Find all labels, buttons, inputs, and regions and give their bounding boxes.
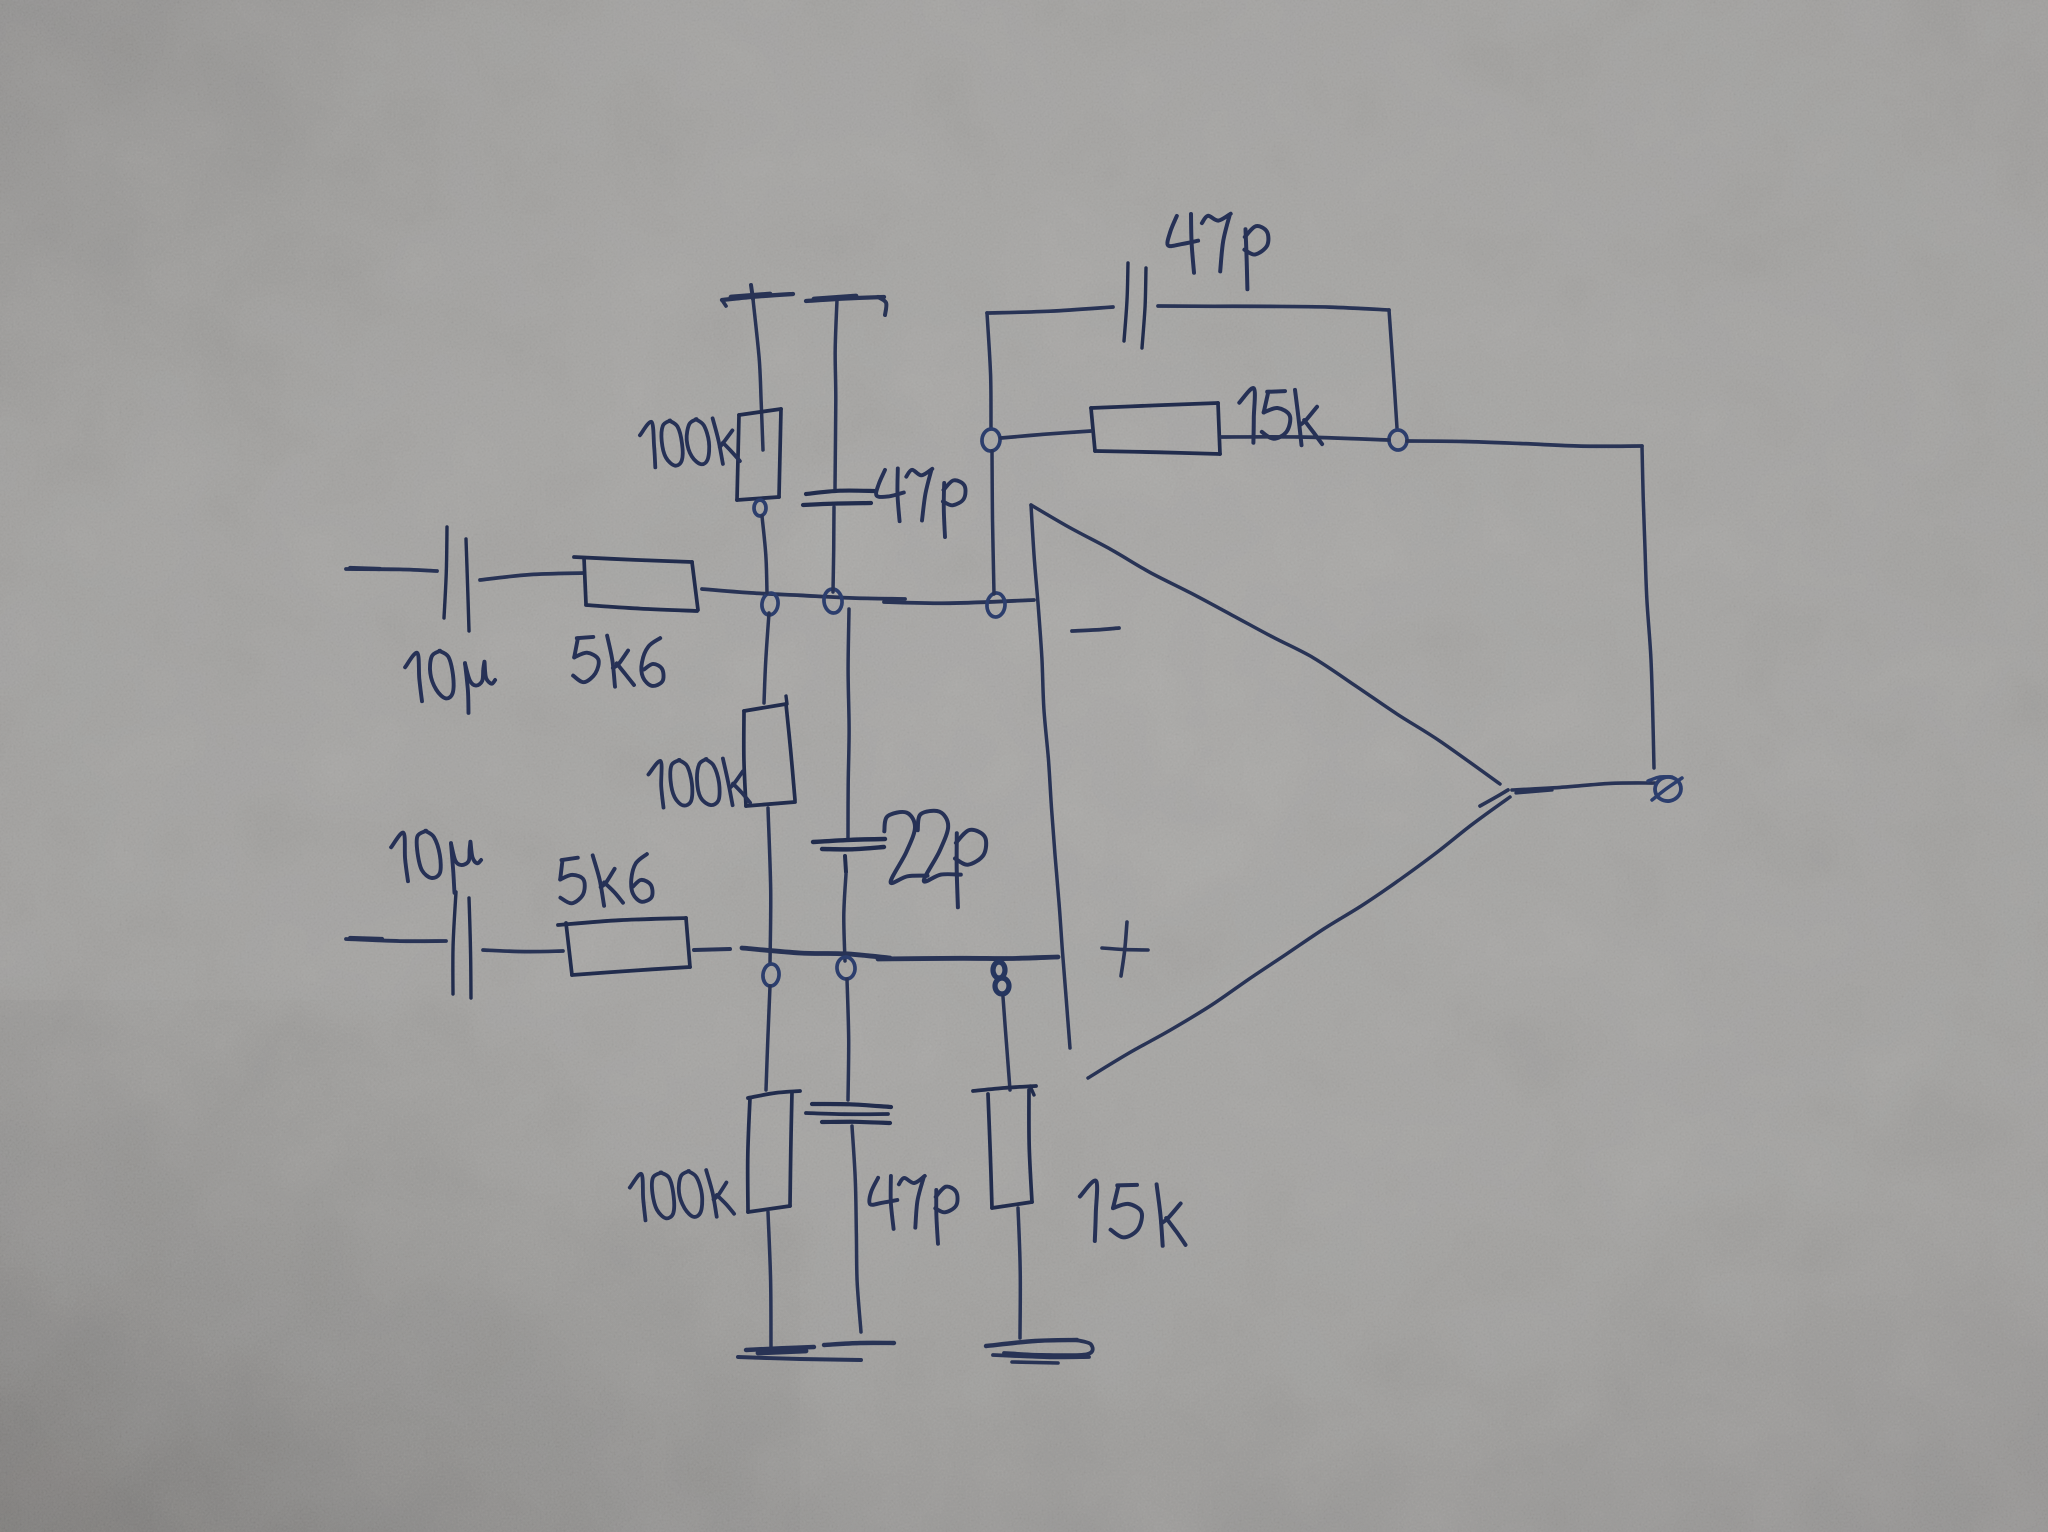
resistor R2 5k6 input 2: [558, 918, 690, 975]
wire C4 down to node E: [844, 874, 846, 961]
wire feedback right corner down: [1389, 310, 1397, 428]
wire node D down to R5: [766, 986, 770, 1090]
wire output right vertical: [1642, 446, 1654, 768]
wire node E down to C5: [847, 979, 849, 1100]
op-amp U1 bottom edge: [1088, 790, 1510, 1078]
node feedback-right: [1388, 429, 1407, 450]
wire node to node C: [992, 451, 994, 594]
capacitor C3 47p mid: [803, 491, 874, 505]
wire node to R7: [1001, 431, 1091, 438]
wire node B down to C4: [848, 609, 849, 838]
wire R2 to non-inverting input: [694, 948, 1058, 959]
node C inverting input junction: [986, 592, 1006, 617]
wire rail-2 down to C3: [835, 300, 837, 489]
wire R4 down to node D: [768, 808, 771, 964]
supply rail bar 2: [806, 296, 886, 315]
wire C2 to R2: [483, 950, 563, 952]
op-amp U1 top edge: [1031, 505, 1500, 784]
supply rail bar 1: [722, 285, 793, 306]
wire C5 down to ground: [852, 1126, 861, 1332]
wire node F down to R6: [1003, 997, 1010, 1090]
label C6 47p: [1167, 214, 1268, 290]
op-amp inverting - sign: [1072, 628, 1119, 631]
resistor R3 100k upper: [737, 409, 781, 500]
wire C3 to node B: [833, 507, 834, 592]
wire input-2 left stub: [346, 938, 446, 941]
label R7 15k: [1239, 388, 1322, 445]
label R3 100k: [640, 418, 740, 467]
capacitor C1 10u input 1: [444, 527, 469, 631]
node small-o below R3: [754, 500, 766, 516]
resistor R7 15k feedback: [1091, 403, 1220, 454]
circuit ink: [346, 214, 1683, 1363]
wire feedback-right to output corner: [1407, 441, 1642, 446]
node E junction C4/wire2: [836, 956, 856, 979]
wire rail-1 down to R3: [753, 299, 763, 450]
label R6 15k: [1080, 1181, 1186, 1246]
wire R3 to node A: [762, 516, 767, 593]
resistor R4 100k middle: [744, 696, 795, 806]
wire feedback top right: [1158, 306, 1389, 310]
wire R6 to ground: [1018, 1208, 1020, 1338]
resistor R6 15k bottom: [973, 1086, 1036, 1208]
wire R1 to inverting node: [702, 589, 1034, 603]
node feedback-left: [981, 428, 1001, 452]
resistor R5 100k bottom: [748, 1091, 800, 1212]
ground G1: [738, 1343, 894, 1360]
label R4 100k: [648, 759, 750, 808]
node D junction R4/wire2: [762, 963, 780, 987]
node F junction 15k/wire2 double: [993, 962, 1009, 994]
op-amp output wire: [1512, 783, 1655, 793]
op-amp non-inverting + sign: [1102, 922, 1148, 976]
ground G2: [986, 1340, 1093, 1363]
wire node A down to R4: [764, 613, 769, 703]
wire feedback left vertical: [987, 313, 991, 428]
wire input-1 left stub: [346, 568, 437, 571]
capacitor C5 47p bottom: [806, 1104, 891, 1123]
capacitor C4 22p: [813, 839, 885, 872]
op-amp U1 left edge: [1031, 505, 1070, 1048]
label C1 10u: [405, 651, 495, 713]
capacitor C2 10u input 2: [453, 892, 471, 998]
wire feedback top left: [987, 307, 1113, 313]
label R1 5k6: [573, 636, 663, 687]
label C3 47p: [876, 468, 965, 537]
node B junction 47p-mid: [823, 588, 843, 614]
wire R5 to ground: [768, 1212, 771, 1348]
wire C1 to R1: [480, 573, 584, 580]
resistor R1 5k6 input 1: [574, 557, 698, 611]
wire R7 to feedback-right node: [1221, 437, 1389, 440]
label R5 100k: [630, 1170, 734, 1220]
capacitor C6 47p feedback: [1124, 263, 1146, 348]
label C2 10u: [391, 831, 481, 893]
output node: [1648, 775, 1683, 803]
node A junction R1/100k-top: [761, 592, 780, 616]
label C4 22p: [884, 811, 986, 907]
label C5 47p: [869, 1176, 957, 1244]
label R2 5k6: [560, 854, 652, 906]
